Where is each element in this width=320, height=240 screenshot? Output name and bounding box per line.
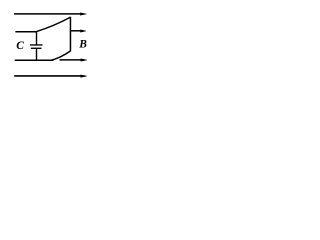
wire: capacitor bottom lead: [36, 49, 38, 61]
wire: capacitor top lead: [36, 31, 38, 44]
horn top slanted edge: [37, 17, 71, 31]
horn bottom slanted edge: [51, 51, 71, 60]
arrowhead of bottom-right line: [81, 59, 87, 62]
wire: top flow line: [14, 13, 81, 15]
arrowhead of bottom flow line: [80, 75, 86, 78]
svg-text:C: C: [16, 40, 24, 52]
arrowhead of middle-right output line: [80, 30, 86, 33]
horn right vertical edge: [69, 17, 71, 52]
arrowhead of top flow line: [80, 13, 86, 16]
wire: bottom flow line: [14, 75, 81, 77]
wire: left lead at node between C and horn: [15, 31, 37, 33]
wire: bottom-right line under horn: [60, 59, 82, 61]
svg-text:B: B: [78, 39, 87, 51]
capacitor C bottom plate: [31, 48, 42, 49]
wire: bottom-left lead: [15, 59, 54, 61]
capacitor C top plate: [30, 44, 43, 45]
wire: middle-right output line from horn: [70, 30, 81, 32]
